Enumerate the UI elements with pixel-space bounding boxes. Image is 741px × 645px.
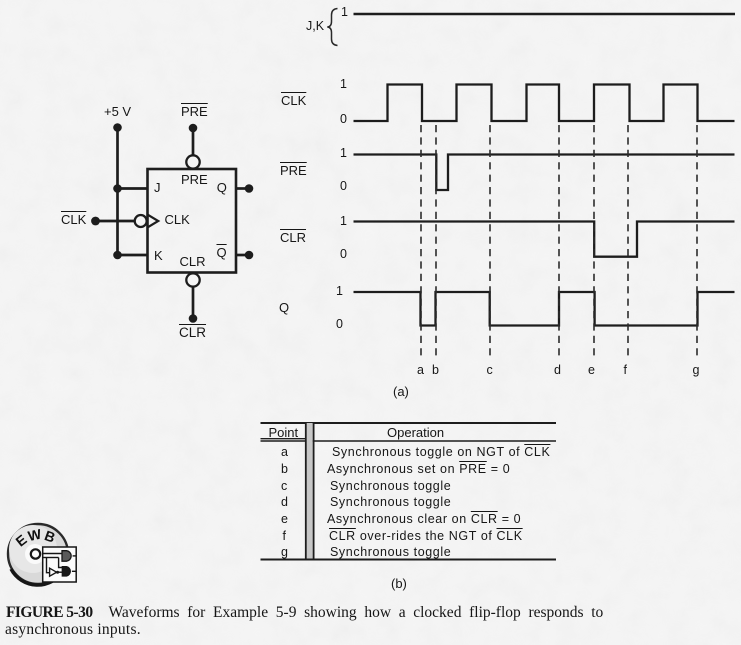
label +5 V supply [104,105,131,118]
figure caption line 1 [6,605,603,621]
wire PRE input [192,128,195,156]
node e label [588,364,595,377]
table row b letter [281,463,288,476]
table header Operation [387,426,444,439]
label (a) [393,385,409,398]
table row c letter [281,480,287,493]
table column double bar left line [305,423,307,560]
node g marker dashed line [696,125,698,360]
pin label CLK inside [165,213,190,226]
wire buffer to gate G2 [58,571,63,573]
node a marker dashed line [420,125,422,360]
pin label Q inside [217,181,227,194]
node J junction dot [113,184,122,193]
label 1 for Q [336,285,343,298]
label PRE input (top) [181,105,208,118]
wire PRE waveform trace [354,155,735,191]
node e marker dashed line [593,125,595,360]
disc bottom shadow arc [11,569,63,585]
table row a text [332,446,550,459]
table header underline (Point column) [261,438,307,440]
node Q output dot [245,184,254,193]
node f label [624,364,627,377]
node b marker dashed line [435,125,437,360]
table row f letter [283,530,286,543]
label J,K [306,20,324,33]
label CLR input (bottom) [179,326,206,340]
node g label [693,364,700,377]
pin label Q-bar inside [217,246,227,259]
table frame top rule [261,422,557,424]
node c label [487,364,493,377]
label 1 for PRE [340,147,347,160]
wire drop to buffer [47,558,50,573]
node K junction dot [113,251,122,260]
pin PRE inversion bubble [186,155,199,168]
table header separator rule [261,440,557,442]
wire to gate G1 input 2 [43,557,59,559]
wire CLR waveform trace [354,222,735,257]
node Q-bar output dot [245,251,254,260]
node buffer output dot [56,571,59,574]
node f marker dashed line [627,125,629,360]
table column double bar right line [313,423,315,560]
wire Q output [236,187,249,190]
label PRE waveform [280,164,307,177]
table row c text [330,480,451,493]
disc body [8,524,68,584]
label 0 for Q [336,318,343,331]
table row d text [330,496,451,509]
buffer triangle [50,568,57,576]
node d marker dashed line [558,125,560,360]
EWB disc icon [8,524,77,585]
wire gate G1 output [73,555,77,557]
table header Point [269,426,299,439]
node b label [432,364,439,377]
label 1 for CLR [340,215,347,228]
label 1 for CLK [340,78,347,91]
label 0 for PRE [340,180,347,193]
pin CLK edge-trigger triangle [148,215,159,228]
wire K input from +5V rail [118,254,148,257]
node c marker dashed line [489,125,491,360]
node a label [417,364,424,377]
wire gate G2 output [72,570,77,572]
gate G2 (black NAND) [62,567,70,576]
wire J input from +5V rail [118,187,148,190]
disc hole [31,549,40,558]
gate G1 (grey NAND) [62,551,71,562]
wire Q-bar output [236,254,249,257]
node CLR terminal dot [189,314,198,323]
wire CLR input [192,287,195,319]
gate panel [43,547,76,582]
pin label K [154,249,163,262]
table frame bottom rule [261,559,557,561]
flip-flop U1 body [148,169,237,273]
table row b text [327,463,510,476]
disc hub [25,544,45,564]
label (b) [391,577,407,590]
table row g text [330,546,451,559]
label CLK input (left) [61,213,86,226]
figure caption line 2 [5,622,141,638]
wire Q waveform trace [354,292,735,326]
table row a letter [281,446,288,459]
wire drop to gate G2 [59,558,63,568]
pin label PRE inside [181,173,208,186]
node +5V terminal dot [113,123,122,132]
label 0 for CLR [340,248,347,261]
pin label J [154,181,161,194]
label 1 for J,K [341,6,348,19]
table row d letter [281,496,288,509]
wire J,K constant-1 waveform trace [354,13,736,15]
table row e letter [281,513,288,526]
wire to gate G1 input 1 [43,553,62,555]
node PRE terminal dot [189,124,198,133]
table row f text [329,530,523,543]
pin label CLR inside [180,255,206,268]
label CLK waveform [281,94,306,107]
label CLR waveform [280,231,306,244]
brace for J,K label [327,9,337,46]
+5V supply rail wire [116,128,119,256]
wire CLK input [96,220,135,223]
label 0 for CLK [340,113,347,126]
label Q waveform [279,301,289,314]
table row e text [327,513,521,526]
table row g letter [281,546,288,559]
pin CLR inversion bubble [186,273,199,286]
node d label [554,364,561,377]
table column double bar shading [307,423,313,560]
wire CLK waveform trace [354,85,735,122]
node CLK input terminal dot [91,217,100,226]
pin CLK inversion bubble [135,215,147,227]
